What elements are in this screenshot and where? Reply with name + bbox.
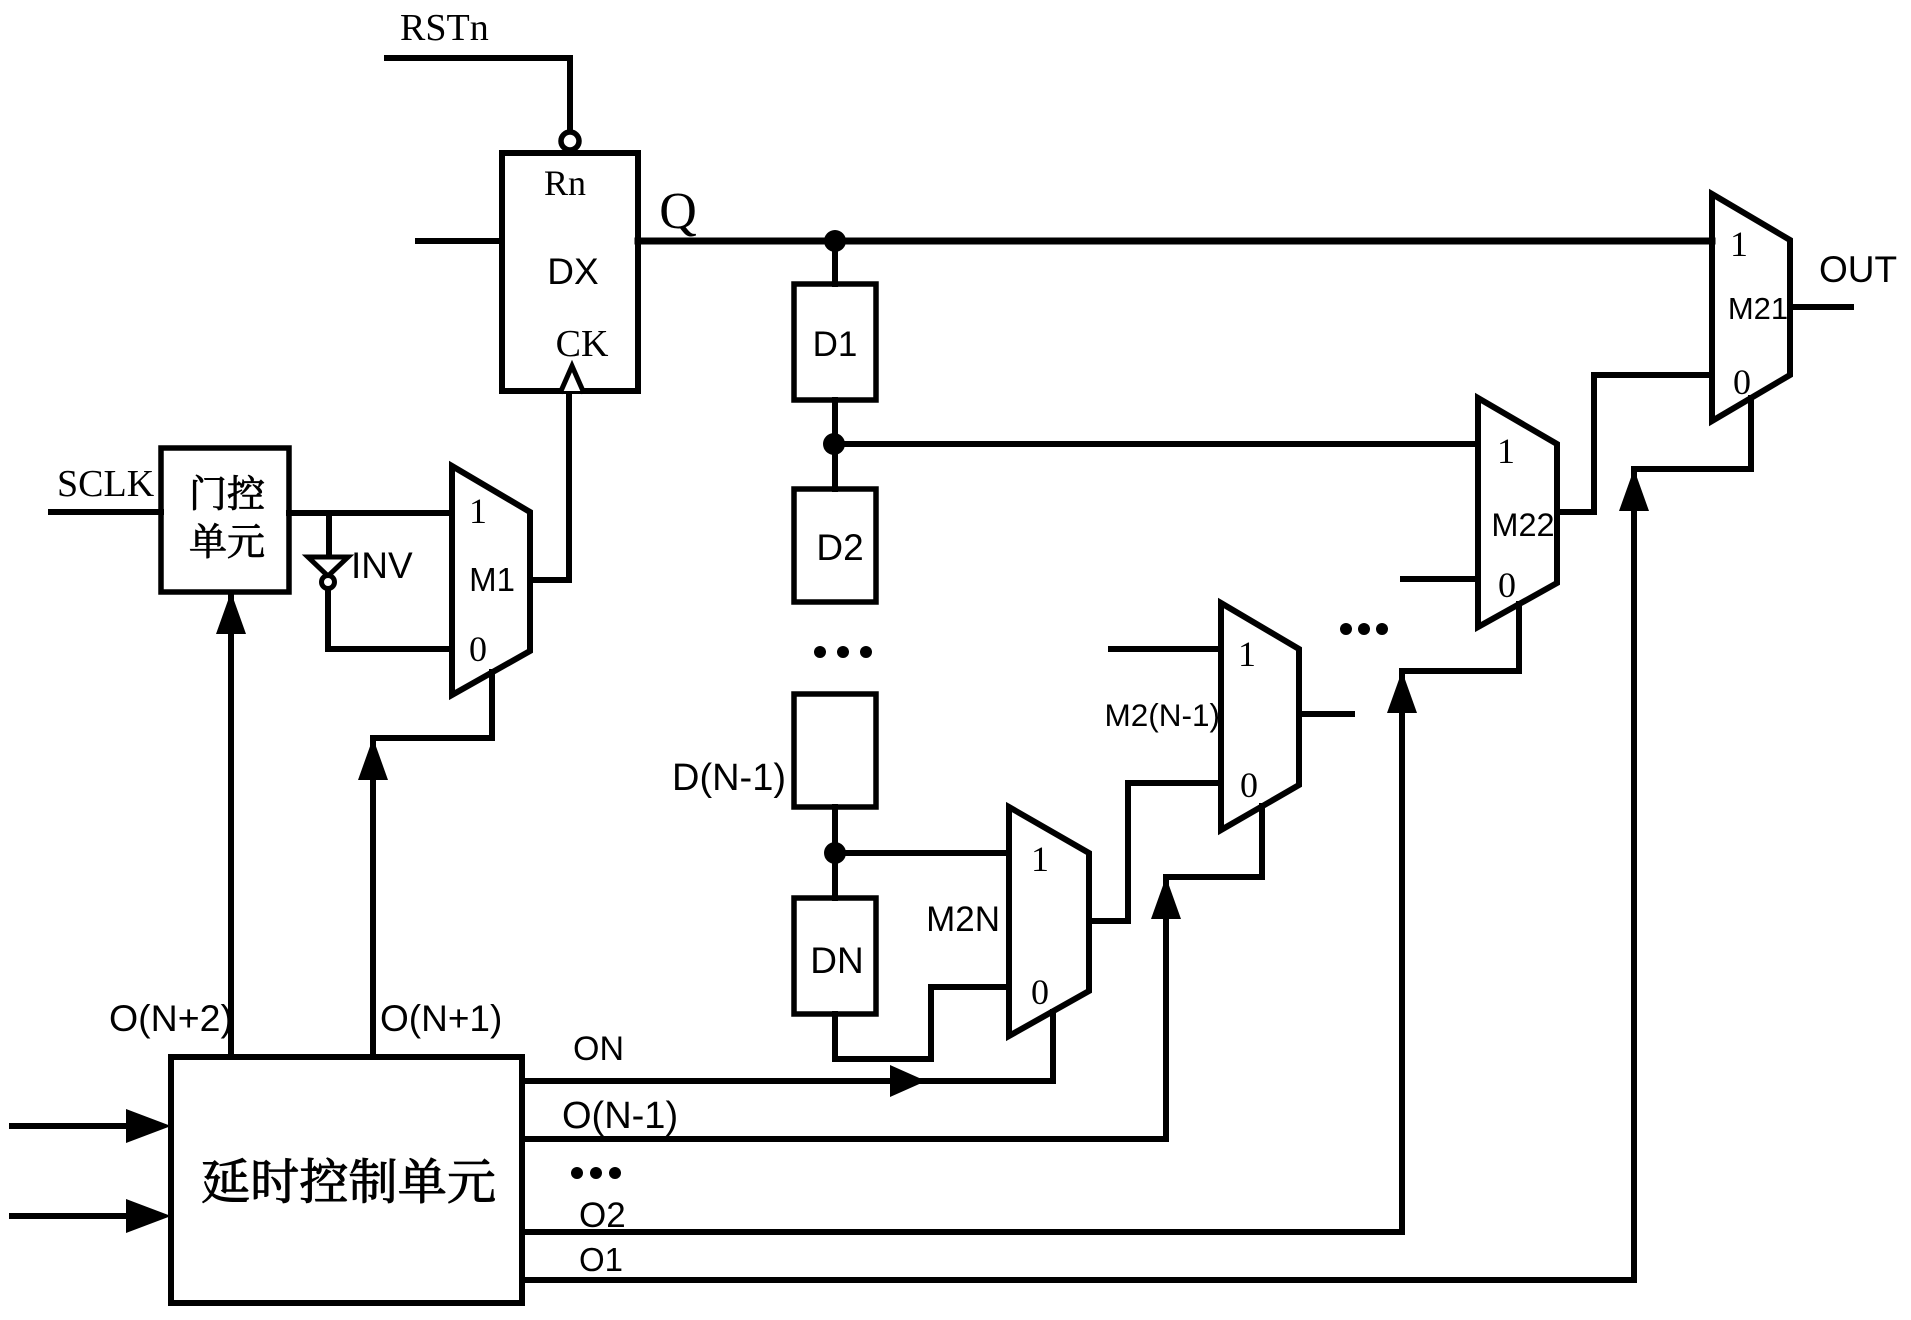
svg-text:DN: DN	[810, 940, 863, 981]
ellipsis dots between M2(N-1) and M22	[1340, 623, 1352, 635]
arrowhead O(N+2) into gate unit	[216, 592, 246, 634]
svg-text:D(N-1): D(N-1)	[672, 757, 786, 799]
svg-text:0: 0	[469, 629, 487, 669]
wire RSTn net: horizontal then down to reset bubble	[387, 58, 570, 131]
wire M2N output to M2(N-1) input 0	[1089, 783, 1221, 921]
svg-text:D2: D2	[816, 527, 863, 568]
wire node between D(N-1)/DN to M2N input 1	[835, 850, 1009, 856]
mux M1 body	[452, 466, 530, 695]
wire M1 output up to flip-flop CK	[530, 391, 569, 580]
mux M2(N-1) body	[1221, 603, 1299, 830]
mux M2N body	[1009, 807, 1089, 1036]
wire M22 input 0 stub	[1403, 576, 1478, 582]
svg-text:D1: D1	[813, 325, 858, 364]
svg-text:M22: M22	[1491, 507, 1554, 543]
wire O(N-1) from delay control unit to M2(N-1) select	[523, 806, 1262, 1139]
svg-text:M21: M21	[1728, 291, 1788, 326]
svg-text:Rn: Rn	[544, 163, 586, 203]
arrowhead input 2 of delay control unit	[126, 1199, 171, 1233]
wire gate unit output to M1 input 1	[289, 510, 452, 516]
label gate control unit line1 门控	[193, 475, 224, 510]
wire D input to flip-flop U1	[418, 238, 502, 244]
svg-text:1: 1	[1238, 634, 1256, 674]
label gate control unit line2 单元	[190, 523, 225, 558]
node junction between D(N-1) and DN	[824, 842, 846, 864]
wire D1 to D2 with tap	[832, 400, 838, 489]
svg-text:RSTn: RSTn	[400, 7, 489, 49]
delay control unit box	[171, 1057, 522, 1303]
label delay control unit 延时控制单元	[203, 1158, 249, 1202]
wire node between D1/D2 to M22 input 1	[834, 441, 1478, 447]
wire M21 output OUT	[1790, 304, 1851, 310]
wire DN output to M2N input 0	[835, 987, 1009, 1059]
svg-text:1: 1	[469, 491, 487, 531]
node junction between D1 and D2	[823, 433, 845, 455]
wire M2(N-1) output stub	[1299, 711, 1352, 717]
svg-text:ON: ON	[573, 1030, 624, 1068]
inverter INV triangle	[308, 557, 348, 576]
arrowhead input 1 of delay control unit	[126, 1109, 171, 1143]
wire SCLK input to gate unit	[51, 509, 161, 515]
wire D(N-1) to DN with tap	[832, 807, 838, 898]
arrowhead ON mid-wire	[890, 1065, 926, 1097]
svg-text:INV: INV	[351, 545, 413, 586]
wire node Q: flip-flop output to M21 input 1	[638, 238, 1712, 245]
svg-text:O(N-1): O(N-1)	[562, 1095, 678, 1137]
wire M2(N-1) input 1 stub	[1111, 646, 1221, 652]
wire ON from delay control unit to M2N select	[523, 1012, 1053, 1081]
svg-text:OUT: OUT	[1819, 249, 1897, 290]
svg-text:M2N: M2N	[926, 900, 1000, 939]
svg-text:Q: Q	[659, 183, 697, 240]
wire O2 from delay control unit to M22 select	[523, 604, 1519, 1232]
svg-text:O2: O2	[579, 1196, 626, 1235]
arrowhead O1 to M21 select	[1619, 469, 1649, 511]
wire M22 output to M21 input 0	[1557, 375, 1712, 512]
node junction on Q at D1	[824, 230, 846, 252]
ellipsis dots between O(N-1) and O2	[571, 1167, 583, 1179]
wire O(N+2) vertical from delay control unit to gate unit	[228, 596, 234, 1057]
svg-text:O(N+1): O(N+1)	[380, 998, 502, 1039]
svg-text:0: 0	[1733, 362, 1751, 402]
svg-text:O(N+2): O(N+2)	[109, 997, 233, 1039]
arrowhead O(N-1) to M2(N-1) select	[1151, 877, 1181, 919]
svg-text:M1: M1	[469, 561, 515, 598]
mux M22 body	[1478, 398, 1557, 627]
svg-text:SCLK: SCLK	[57, 463, 155, 505]
gate control unit box	[161, 448, 289, 592]
delay element DN body	[794, 898, 876, 1014]
arrowhead O(N+1) to M1 select	[358, 738, 388, 780]
wire O(N+1) vertical from delay control unit	[370, 740, 376, 1057]
mux M21 body	[1712, 194, 1790, 421]
wire Q junction down to D1	[832, 241, 838, 284]
wire tap down to inverter INV input	[326, 513, 332, 557]
inverter INV bubble	[322, 576, 335, 589]
ellipsis dots in delay chain	[814, 646, 826, 658]
svg-text:DX: DX	[547, 251, 598, 292]
arrowhead O2 to M22 select	[1387, 671, 1417, 713]
svg-text:CK: CK	[556, 323, 609, 365]
wire input arrow 2 shaft into delay control unit	[12, 1213, 132, 1219]
delay element D2 body	[794, 489, 876, 602]
svg-text:1: 1	[1497, 431, 1515, 471]
svg-text:M2(N-1): M2(N-1)	[1105, 697, 1221, 733]
flip-flop U1 (DX) body	[502, 153, 638, 391]
svg-text:0: 0	[1498, 565, 1516, 605]
svg-text:O1: O1	[579, 1241, 623, 1278]
wire O1 from delay control unit to M21 select	[523, 398, 1751, 1280]
svg-text:0: 0	[1240, 765, 1258, 805]
svg-text:1: 1	[1730, 224, 1748, 264]
wire INV output down then right to M1 input 0	[328, 588, 452, 649]
flip-flop U1 reset bubble	[561, 132, 579, 150]
svg-text:0: 0	[1031, 972, 1049, 1012]
flip-flop U1 clock wedge	[561, 366, 583, 391]
svg-text:1: 1	[1031, 839, 1049, 879]
wire M1 select from O(N+1)	[373, 672, 492, 738]
delay element D(N-1) body	[794, 694, 876, 807]
wire input arrow 1 shaft into delay control unit	[12, 1123, 132, 1129]
delay element D1 body	[794, 284, 876, 400]
